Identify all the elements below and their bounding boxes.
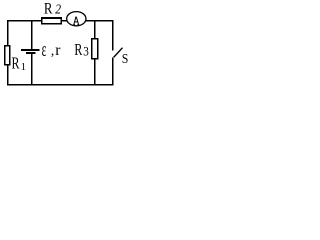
wire R3 branch lower: [94, 59, 96, 84]
wire battery branch upper: [31, 20, 33, 50]
label R1: [12, 54, 26, 73]
label R3: [74, 40, 89, 59]
switch S blade: [114, 48, 123, 58]
wire right side lower (below switch): [112, 57, 114, 85]
wire right side upper (above switch): [112, 20, 114, 51]
svg-text:r: r: [55, 42, 61, 59]
svg-text:1: 1: [21, 62, 26, 73]
label R2: [44, 0, 61, 17]
svg-text:S: S: [122, 51, 129, 66]
svg-text:R: R: [12, 54, 20, 73]
battery short plate: [26, 52, 36, 54]
svg-text:R: R: [44, 0, 53, 17]
resistor R2 box: [42, 18, 62, 24]
svg-text:2: 2: [55, 3, 61, 18]
svg-text:3: 3: [83, 44, 89, 58]
battery long plate: [21, 49, 40, 51]
ammeter A: [67, 12, 86, 26]
resistor R1 box: [5, 46, 10, 65]
svg-text:R: R: [74, 40, 83, 59]
wire top side: [7, 20, 114, 22]
svg-text:ε: ε: [42, 40, 47, 61]
svg-text:,: ,: [51, 43, 54, 58]
wire R3 branch upper: [94, 20, 96, 40]
wire left side: [7, 20, 9, 86]
wire battery branch lower: [31, 54, 33, 85]
resistor R3 box: [92, 39, 98, 59]
wire bottom side: [7, 84, 114, 86]
